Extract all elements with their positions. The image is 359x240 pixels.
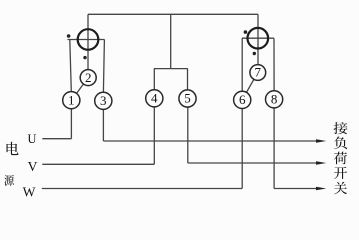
svg-text:U: U bbox=[27, 132, 36, 146]
svg-text:6: 6 bbox=[239, 92, 246, 107]
svg-text:4: 4 bbox=[151, 91, 158, 106]
svg-text:3: 3 bbox=[100, 93, 107, 108]
svg-text:5: 5 bbox=[184, 91, 191, 106]
svg-text:W: W bbox=[23, 184, 36, 199]
svg-text:2: 2 bbox=[85, 70, 92, 85]
svg-text:V: V bbox=[28, 159, 38, 174]
svg-text:1: 1 bbox=[68, 92, 75, 107]
svg-text:7: 7 bbox=[255, 65, 262, 80]
svg-text:8: 8 bbox=[271, 92, 278, 107]
